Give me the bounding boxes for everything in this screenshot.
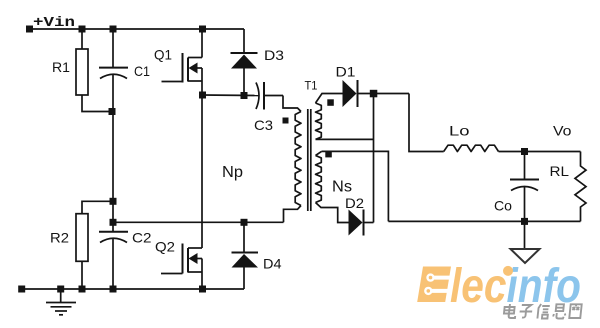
wire center tap	[322, 151, 389, 221]
char 信	[537, 304, 550, 319]
logo i dot orange	[503, 266, 513, 276]
logo Elecinfo	[417, 260, 581, 313]
node D3 anode junction	[241, 92, 248, 99]
node C2 top junction	[110, 219, 117, 226]
node Q1 drain	[199, 26, 206, 33]
node secondary dot upper	[327, 99, 334, 106]
transformer secondary lower winding Ns	[316, 151, 322, 155]
wire C2 top lead	[112, 201, 114, 231]
resistor RL	[575, 152, 586, 222]
logo chinese subtitle 电子信息网	[503, 304, 581, 319]
wire C2 bottom lead	[112, 239, 114, 289]
wire output bottom rail	[388, 220, 580, 222]
node R2 top junction	[110, 198, 117, 205]
wire output feed	[409, 94, 444, 152]
svg-text:D1: D1	[336, 64, 356, 80]
node D1 cathode junction	[370, 90, 378, 98]
svg-text:Vo: Vo	[553, 123, 572, 139]
transistor Q1	[201, 29, 203, 58]
svg-text:R2: R2	[50, 230, 69, 246]
capacitor C3	[256, 83, 259, 110]
node C2 bottom	[110, 286, 117, 293]
svg-text:RL: RL	[550, 163, 570, 179]
resistor R1	[76, 49, 88, 95]
svg-text:Np: Np	[222, 164, 243, 181]
node C1 top	[110, 26, 117, 33]
node R1 top	[79, 26, 86, 33]
svg-text:Ns: Ns	[332, 179, 352, 196]
node R2 bottom	[79, 286, 86, 293]
node secondary dot lower	[325, 151, 332, 158]
node Vo	[521, 148, 528, 155]
wire C1 top lead	[112, 29, 114, 67]
wire C1 bottom to chain	[112, 75, 114, 201]
node R1/C1 bottom junction	[109, 108, 116, 115]
svg-text:Q2: Q2	[155, 239, 175, 255]
wire primary top lead	[283, 96, 301, 112]
wire R2 bottom lead	[81, 261, 83, 289]
diode D3	[243, 29, 245, 53]
char 息	[553, 304, 566, 318]
wire top rail	[30, 28, 245, 30]
diode D2	[349, 210, 363, 236]
svg-text:D2: D2	[345, 195, 364, 211]
wire upper winding bottom exit	[316, 138, 374, 140]
svg-text:Co: Co	[494, 198, 512, 214]
node Co bottom	[521, 218, 528, 225]
capacitor C1	[99, 67, 128, 69]
node Q1 source / midpoint A	[199, 92, 206, 99]
wire primary bottom lead	[284, 206, 302, 223]
logo E glyph	[417, 267, 451, 303]
transistor Q2	[188, 247, 202, 249]
svg-text:D3: D3	[264, 47, 284, 63]
svg-text:D4: D4	[263, 256, 282, 272]
capacitor C2	[99, 231, 128, 233]
resistor R2	[76, 214, 88, 262]
wire D1 node to D2 cathode	[373, 94, 375, 223]
node ground junction	[57, 286, 64, 293]
svg-text:Q1: Q1	[154, 47, 172, 63]
char 网	[569, 304, 581, 318]
ground output	[524, 221, 526, 249]
transformer secondary upper winding	[316, 94, 343, 104]
node +Vin terminal	[26, 26, 33, 33]
wire R1 top lead	[81, 29, 83, 49]
transformer core	[307, 109, 309, 211]
svg-text:+Vin: +Vin	[33, 15, 75, 31]
node bottom-left terminal	[18, 286, 25, 293]
svg-text:C1: C1	[134, 63, 150, 79]
char 子	[519, 305, 533, 318]
wire midpoint upper	[203, 94, 260, 97]
node primary dot	[283, 118, 289, 124]
wire R2 top lead	[82, 201, 113, 213]
svg-text:Lo: Lo	[449, 123, 470, 139]
node D4 cathode junction	[241, 219, 248, 226]
svg-text:T1: T1	[305, 79, 318, 93]
ground	[60, 289, 62, 302]
node Q2 source	[199, 286, 206, 293]
wire R1 bottom lead	[82, 95, 112, 112]
svg-text:R1: R1	[52, 59, 70, 75]
wire bottom rail	[22, 288, 244, 290]
wire midpoint lower (C2 to primary bottom)	[113, 221, 284, 223]
svg-text:C2: C2	[132, 230, 152, 246]
wire Q1 source to Q2 drain	[201, 95, 203, 248]
svg-text:C3: C3	[254, 117, 273, 133]
transformer T1 primary winding Np	[295, 112, 301, 206]
wire Lo to Vo	[499, 151, 581, 153]
char 电	[503, 304, 516, 318]
inductor Lo	[444, 145, 499, 151]
diode D1	[343, 80, 357, 107]
capacitor Co	[524, 152, 526, 180]
diode D4	[243, 222, 245, 252]
